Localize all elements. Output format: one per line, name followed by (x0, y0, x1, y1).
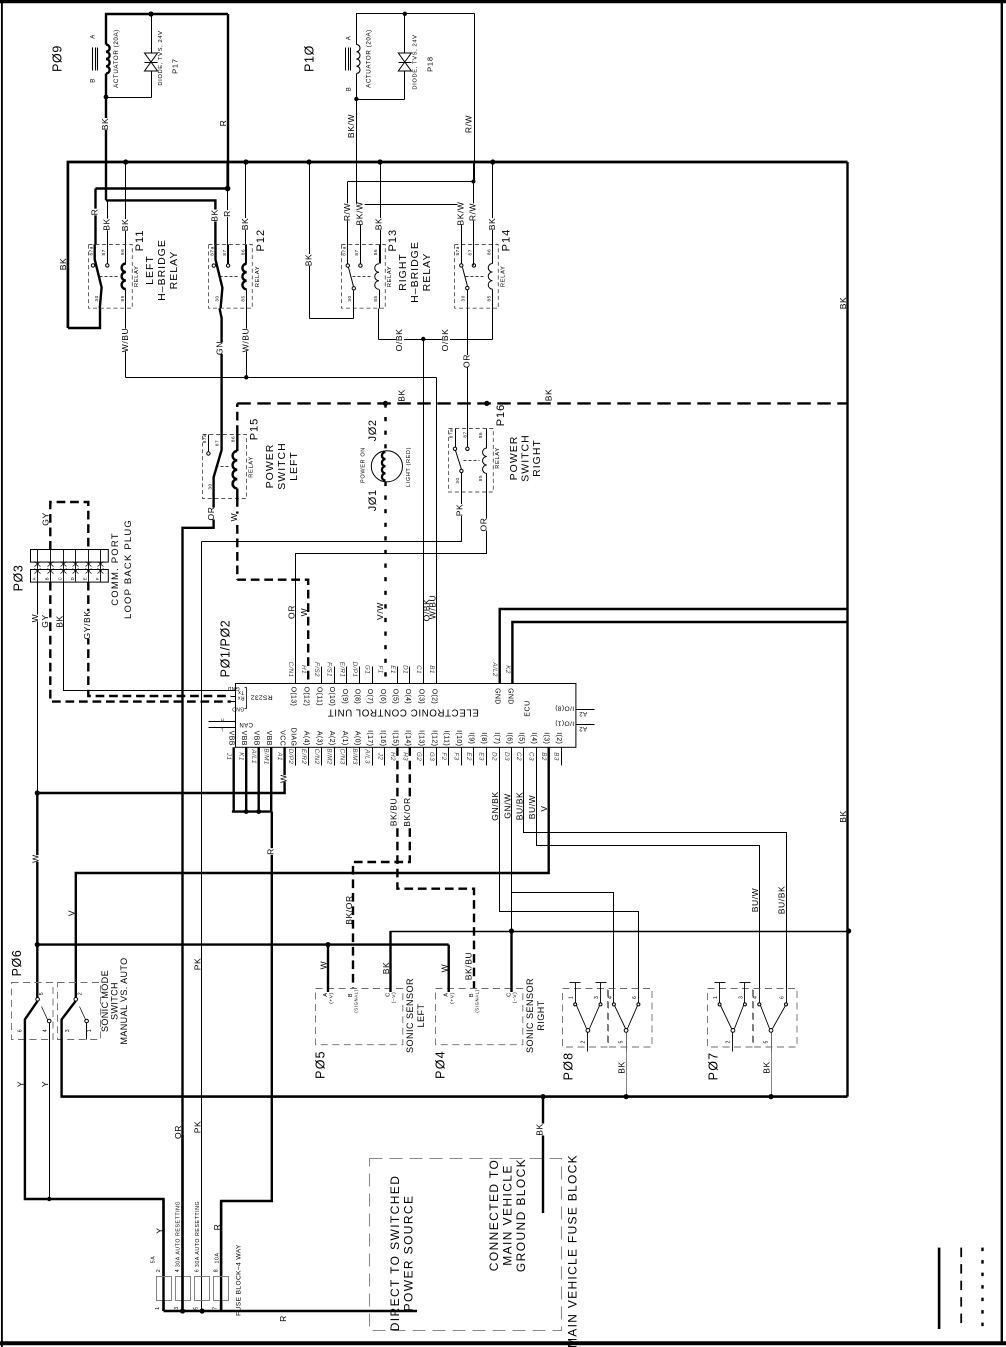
svg-text:GN: GN (215, 341, 225, 355)
wire Y from P06-6 (25, 1040, 164, 1312)
svg-text:GY: GY (40, 512, 50, 525)
wire P17 bottom link (107, 97, 152, 99)
svg-text:O(6): O(6) (379, 689, 386, 704)
ECU top pin O(4)/D1 (409, 667, 411, 684)
svg-text:B2: B2 (540, 752, 547, 761)
svg-text:A(0): A(0) (354, 731, 361, 746)
svg-text:OR: OR (461, 354, 471, 368)
wire BK P07-5 to bus (771, 1033, 773, 1097)
P15 87 blade thick from GN (214, 434, 222, 498)
svg-text:W/BU: W/BU (240, 328, 250, 353)
svg-text:V: V (539, 805, 549, 811)
P16 30 wire PK (202, 492, 462, 542)
connector PØ7 crossed pins (759, 989, 761, 1003)
svg-text:8: 8 (213, 1269, 219, 1273)
wire P11-30 to bus left corner (68, 308, 100, 328)
svg-text:Tx: Tx (238, 689, 244, 695)
svg-text:H: H (220, 717, 223, 722)
svg-text:A: A (32, 577, 37, 580)
svg-text:(SIGNAL): (SIGNAL) (354, 989, 359, 1012)
svg-text:2: 2 (77, 992, 83, 996)
wire BK from P03-C to ECU GND (64, 582, 231, 691)
svg-text:I(7): I(7) (493, 732, 500, 744)
svg-text:RS232: RS232 (250, 693, 272, 700)
svg-text:A/L2: A/L2 (491, 661, 498, 677)
svg-text:LOOP BACK PLUG: LOOP BACK PLUG (123, 519, 134, 619)
svg-text:DIODE, TVS, 24V: DIODE, TVS, 24V (158, 30, 164, 85)
wire BK/OR dashed ECU I(14) to P05-B (353, 747, 410, 989)
svg-text:86: 86 (373, 249, 378, 255)
ECU bottom pin A(4)/E/R2 (308, 748, 310, 766)
svg-text:OR: OR (206, 507, 216, 521)
wire from P06-3 to BK bus (62, 1040, 848, 1097)
svg-text:(+V): (+V) (329, 992, 335, 1004)
wire dashed lamp to ECU O(6) (384, 482, 387, 684)
svg-text:C: C (385, 992, 391, 997)
svg-text:7: 7 (212, 1306, 218, 1310)
svg-text:6: 6 (194, 1269, 200, 1273)
svg-text:Rx: Rx (237, 695, 244, 701)
ECU CAN stubs (209, 721, 236, 723)
wire BU/BK ECU I(5) to P07-6 (524, 748, 787, 989)
svg-text:F3: F3 (453, 752, 460, 760)
svg-text:BK: BK (838, 810, 848, 823)
svg-text:GY/BK: GY/BK (82, 611, 92, 640)
svg-text:2: 2 (580, 1040, 586, 1044)
svg-text:P11: P11 (134, 230, 146, 252)
wire P12-86 BK from bus (245, 163, 247, 266)
fuse bottom R bus (164, 1310, 418, 1312)
wire W from P03-A (37, 582, 39, 794)
svg-text:R: R (222, 210, 232, 217)
svg-text:POWER: POWER (508, 436, 520, 481)
wire BK/BU dashed ECU I(15) to P04-B (397, 747, 474, 989)
wire R branch to P11-87a (96, 187, 228, 189)
svg-text:GND: GND (227, 685, 239, 691)
svg-text:VBB: VBB (265, 731, 272, 746)
svg-text:A: A (90, 34, 96, 39)
connector PØ7 box A (708, 989, 753, 1048)
svg-text:BK: BK (374, 218, 384, 231)
wire GN/BK ECU I(7) to P08-6 (500, 748, 639, 989)
svg-text:L: L (220, 727, 223, 732)
svg-text:A: A (346, 36, 352, 41)
svg-text:F/S1: F/S1 (326, 662, 333, 677)
actuator P10 core lines (345, 48, 347, 71)
svg-text:I/O(1): I/O(1) (555, 719, 574, 726)
svg-text:Y: Y (15, 1081, 25, 1087)
wire W to P04-A (448, 945, 450, 992)
actuator P09 coil (106, 45, 110, 74)
ECU top pin O(8)/D/P1 (359, 667, 361, 684)
wire OR thin P16-85 to ECU O(13) (296, 492, 487, 684)
ECU top pin O(7)/G1 (372, 667, 374, 684)
relay P11 87 contact (107, 245, 109, 264)
svg-text:G1: G1 (364, 665, 371, 674)
svg-text:87a: 87a (209, 246, 214, 255)
svg-text:R: R (278, 1315, 288, 1322)
svg-text:GROUND BLOCK: GROUND BLOCK (514, 1158, 528, 1272)
svg-text:3: 3 (65, 1029, 71, 1033)
svg-text:BK/OR: BK/OR (402, 797, 412, 826)
label BK (102, 118, 110, 130)
wire R from VBB to fuse (221, 812, 272, 1311)
svg-text:C2: C2 (515, 752, 522, 761)
svg-text:RELAY: RELAY (495, 447, 501, 469)
power source dashed box (370, 1159, 562, 1331)
svg-text:BK: BK (761, 1061, 771, 1074)
svg-text:6: 6 (779, 996, 785, 1000)
svg-text:I(11): I(11) (443, 730, 450, 746)
svg-text:R/W: R/W (342, 203, 352, 221)
connector PØ8 crossed pins (613, 989, 615, 1003)
wire P11-86 BK from bus (125, 163, 127, 264)
svg-text:W: W (30, 854, 40, 863)
connector PØ7 crossed pins (715, 982, 726, 984)
actuator P10 top wire (357, 14, 475, 45)
svg-text:P14: P14 (501, 229, 513, 252)
bus junction dots (123, 159, 128, 164)
svg-text:RELAY: RELAY (134, 266, 140, 288)
wire GN/W branch to P08-4 (512, 893, 614, 989)
svg-text:SONIC SENSOR: SONIC SENSOR (525, 978, 535, 1053)
fuse block fuses (157, 1277, 172, 1301)
svg-text:H–BRIDGE: H–BRIDGE (156, 239, 168, 301)
wire P13-86 BK (380, 163, 382, 264)
relay P11 coil (125, 245, 127, 264)
svg-text:BK: BK (240, 218, 250, 231)
svg-text:O(8): O(8) (354, 689, 361, 704)
ECU bottom pin A(0)/B/M3 (359, 748, 361, 766)
junction dot P18 top (403, 12, 407, 16)
W bus to sensors (37, 943, 448, 945)
wire W dashed P15-85 to ECU O(12) (236, 498, 238, 580)
wire R to P12-87 (225, 186, 231, 192)
svg-text:PØ1/PØ2: PØ1/PØ2 (218, 620, 232, 678)
wire BK P13-30 to bus (309, 163, 311, 319)
svg-text:P15: P15 (248, 418, 260, 441)
P16 blade (456, 451, 462, 470)
svg-text:FUSE BLOCK–4 WAY: FUSE BLOCK–4 WAY (235, 1244, 242, 1316)
svg-text:PØ7: PØ7 (706, 1052, 720, 1081)
svg-text:87: 87 (101, 249, 106, 255)
svg-text:D3: D3 (503, 752, 510, 761)
svg-text:R: R (218, 120, 228, 127)
svg-text:E/R2: E/R2 (300, 749, 307, 765)
svg-text:30A AUTO RESETTING: 30A AUTO RESETTING (176, 1201, 182, 1267)
wire P11-87 BK stub (107, 201, 109, 245)
svg-text:RELAY: RELAY (421, 253, 433, 292)
svg-text:BK: BK (101, 218, 111, 231)
svg-text:SONIC SENSOR: SONIC SENSOR (405, 978, 415, 1053)
svg-text:CONNECTED TO: CONNECTED TO (487, 1159, 501, 1271)
svg-text:BU/BK: BU/BK (515, 792, 525, 821)
svg-text:I(17): I(17) (366, 730, 373, 746)
wire BK net P09-B to P12-87a (106, 200, 215, 244)
svg-text:B: B (346, 87, 352, 92)
svg-text:RELAY: RELAY (255, 266, 261, 288)
svg-text:5: 5 (763, 1040, 769, 1044)
svg-text:C/N2: C/N2 (313, 749, 320, 765)
svg-text:H1: H1 (300, 665, 307, 674)
svg-text:BK: BK (210, 209, 220, 222)
W net verticals (35, 790, 40, 795)
svg-text:V/W: V/W (375, 602, 385, 620)
svg-text:OR: OR (479, 518, 489, 532)
svg-text:85: 85 (120, 295, 125, 301)
svg-text:LEFT: LEFT (144, 255, 156, 285)
svg-text:A2: A2 (579, 710, 587, 716)
relay P13 coil (379, 245, 381, 264)
power switch P16 box (449, 429, 494, 493)
svg-text:3: 3 (594, 996, 600, 1000)
svg-text:A1: A1 (276, 751, 283, 761)
svg-text:87: 87 (354, 249, 359, 255)
svg-text:RIGHT: RIGHT (531, 439, 543, 477)
svg-text:5: 5 (39, 992, 45, 996)
svg-text:SWITCH: SWITCH (519, 434, 531, 481)
svg-text:87a: 87a (455, 246, 460, 255)
svg-text:2: 2 (725, 1040, 731, 1044)
actuator P09 core lines (92, 48, 94, 71)
svg-text:85: 85 (373, 295, 378, 301)
svg-text:SONIC MODE: SONIC MODE (100, 970, 110, 1032)
svg-text:W/BU: W/BU (427, 595, 437, 620)
svg-text:POWER ON: POWER ON (360, 447, 366, 483)
power switch P15 box (203, 435, 247, 499)
svg-text:LEFT: LEFT (416, 1003, 426, 1027)
P16 87a contact (455, 429, 457, 448)
svg-text:RELAY: RELAY (168, 251, 180, 290)
svg-text:ACTUATOR (20A): ACTUATOR (20A) (113, 29, 120, 88)
wire GY/BK from P03-E to ECU (88, 582, 231, 696)
svg-text:B/M2: B/M2 (326, 748, 333, 764)
wire PK down to fuse block (201, 542, 203, 1312)
wire P09-A R down (227, 14, 229, 189)
ECU bottom pin A(3)/C/N2 (321, 748, 323, 766)
wire dashed to lamp J02 (384, 403, 387, 450)
relay P11 87a contact (95, 244, 102, 308)
wire BK dashed from P15-86 to bus (236, 403, 238, 434)
svg-text:I(14): I(14) (404, 730, 411, 746)
P16 coil (486, 429, 488, 449)
wire GN from P12-30 (220, 308, 222, 434)
svg-text:B: B (90, 78, 96, 83)
BK gnd line A/L2 (500, 609, 848, 683)
wire GN/W ECU I(6) to BK net (511, 748, 513, 932)
svg-text:5A: 5A (151, 1256, 157, 1264)
svg-text:POWER: POWER (264, 444, 276, 489)
ECU bottom pin DIAG./D/P2 (295, 748, 297, 766)
svg-text:4: 4 (43, 1029, 49, 1033)
svg-text:E: E (83, 577, 88, 580)
actuator P09 top wire (106, 14, 228, 45)
svg-text:VBB: VBB (228, 731, 235, 746)
svg-text:VBB: VBB (253, 731, 260, 746)
svg-text:E3: E3 (478, 752, 485, 761)
svg-text:O(9): O(9) (341, 689, 348, 704)
svg-text:O(11): O(11) (315, 687, 322, 706)
svg-text:4: 4 (753, 996, 759, 1000)
svg-text:BK: BK (100, 118, 110, 131)
svg-text:B/M3: B/M3 (351, 748, 358, 764)
svg-text:(−V): (−V) (391, 992, 397, 1004)
svg-text:JØ2: JØ2 (367, 419, 379, 441)
svg-text:1: 1 (713, 996, 719, 1000)
svg-text:A2: A2 (579, 725, 587, 731)
svg-text:3: 3 (174, 1306, 180, 1310)
wire BK P05-C (389, 931, 391, 992)
svg-text:I(4): I(4) (530, 732, 537, 744)
ECU top pin O(11)/F/S2 (321, 667, 323, 684)
P03 connector bars (31, 550, 109, 563)
bottom BK bus (61, 1095, 847, 1097)
wire P14-86 BK (492, 163, 494, 264)
svg-text:OR: OR (286, 605, 296, 619)
svg-text:C3: C3 (528, 752, 535, 761)
svg-text:J1: J1 (225, 752, 232, 761)
R supply bus (68, 162, 848, 328)
svg-text:E1: E1 (389, 665, 396, 674)
svg-text:PK: PK (192, 958, 202, 971)
svg-text:I(13): I(13) (417, 730, 424, 746)
svg-text:B3: B3 (553, 752, 560, 761)
svg-text:P1Ø: P1Ø (302, 45, 316, 72)
svg-text:RELAY: RELAY (387, 266, 393, 288)
svg-text:H–BRIDGE: H–BRIDGE (409, 241, 421, 303)
P16 87 contact from OR (466, 447, 469, 450)
wire BK P08-5 to bus (626, 1033, 628, 1097)
svg-text:PØ9: PØ9 (50, 45, 64, 72)
wire V from ECU I(3) to P06-2 (76, 747, 549, 999)
svg-text:(+V): (+V) (449, 992, 455, 1004)
svg-text:D: D (70, 577, 75, 581)
diode P17 TVS (151, 15, 153, 98)
svg-text:B: B (45, 577, 50, 580)
svg-text:85: 85 (486, 295, 491, 301)
relay P14 box (455, 245, 499, 309)
svg-text:30: 30 (347, 295, 352, 301)
svg-text:I(5): I(5) (518, 732, 525, 744)
svg-text:GND: GND (232, 706, 244, 712)
svg-text:1: 1 (155, 1306, 161, 1310)
legend solid line (938, 1248, 941, 1329)
wire BK P04-C (510, 931, 512, 992)
wire W/BU relay coils to ECU O(2) (125, 309, 127, 378)
svg-text:86: 86 (478, 432, 483, 438)
svg-text:A: A (323, 992, 329, 996)
wire OR through fuse 2 (181, 1135, 183, 1311)
wire P09-B down BK (105, 74, 107, 98)
svg-text:87a: 87a (89, 246, 94, 255)
svg-text:GN/BK: GN/BK (490, 791, 500, 820)
ECU bottom pin I(12)/G3 (436, 748, 438, 766)
svg-text:DIRECT TO SWITCHED: DIRECT TO SWITCHED (388, 1175, 402, 1332)
svg-text:PØ8: PØ8 (562, 1052, 576, 1081)
svg-text:BK: BK (120, 219, 130, 232)
relay P11 box (89, 245, 133, 309)
svg-text:O(4): O(4) (404, 689, 411, 704)
P06 left switch (36, 998, 40, 1002)
svg-text:P18: P18 (425, 56, 434, 72)
svg-text:BK: BK (838, 297, 848, 310)
svg-text:I(15): I(15) (391, 730, 398, 746)
svg-text:E2: E2 (465, 752, 472, 761)
svg-text:SWITCH: SWITCH (109, 982, 119, 1020)
wire BK to ground block (542, 1097, 544, 1213)
wire BK/W from P10-B (356, 100, 358, 197)
ECU bottom pin I(17)/A/L3 (372, 748, 374, 766)
wire P10-B down BK/W (356, 74, 358, 100)
svg-text:I(2): I(2) (555, 732, 562, 744)
svg-text:C: C (58, 577, 63, 581)
svg-text:I(12): I(12) (430, 730, 437, 746)
svg-text:E/R1: E/R1 (338, 662, 345, 678)
svg-text:3: 3 (738, 996, 744, 1000)
svg-text:PK: PK (192, 1121, 202, 1134)
svg-text:H3: H3 (401, 752, 408, 761)
svg-text:O(10): O(10) (328, 687, 335, 707)
svg-text:D2: D2 (491, 752, 498, 761)
ECU bottom pin A(2)/B/M2 (334, 748, 336, 766)
svg-text:ACTUATOR (20A): ACTUATOR (20A) (366, 29, 373, 88)
page border frame (0, 0, 1006, 3)
svg-text:30: 30 (455, 477, 460, 483)
wire R into fuse 4 (220, 1201, 222, 1276)
svg-text:O(12): O(12) (302, 687, 309, 707)
connector PØ8 box B (609, 989, 653, 1048)
svg-text:BK: BK (58, 258, 68, 271)
svg-text:BK: BK (55, 615, 65, 628)
sonic sensor PØ5 box (316, 989, 403, 1045)
wire R/W from P10-A (474, 14, 476, 182)
sonic sensor PØ4 box (436, 989, 523, 1045)
svg-text:A/L1: A/L1 (250, 748, 257, 764)
svg-text:6: 6 (18, 1029, 24, 1033)
svg-text:K1: K1 (238, 752, 245, 761)
svg-text:GND: GND (506, 688, 513, 705)
wire GY from P03-B to ECU (50, 582, 231, 702)
ECU top pin O(9)/E/R1 (346, 667, 348, 684)
ECU bottom pin A(1)/C/N3 (346, 748, 348, 766)
BK net line sensors (391, 931, 849, 933)
svg-text:BU/W: BU/W (527, 795, 537, 820)
svg-text:BK: BK (617, 1061, 627, 1074)
svg-text:87: 87 (463, 431, 468, 437)
svg-text:D1: D1 (401, 665, 408, 674)
svg-text:PK: PK (454, 504, 464, 517)
ECU right I/O stubs (576, 709, 595, 711)
svg-text:O(5): O(5) (391, 689, 398, 704)
svg-text:RELAY: RELAY (249, 456, 255, 478)
svg-text:C/N1: C/N1 (287, 662, 294, 678)
svg-text:6: 6 (632, 996, 638, 1000)
relay P14 coil (492, 245, 494, 264)
wire BU/W ECU I(4) to P07-4 (537, 748, 760, 989)
relay P14 87a contact (461, 245, 463, 264)
svg-text:I(3): I(3) (543, 732, 550, 744)
ECU bottom pin I(10)/F3 (461, 748, 463, 766)
svg-text:4: 4 (607, 996, 613, 1000)
wire OR P14-30 to P16-87 (467, 309, 469, 448)
P15 actuation dash (216, 466, 230, 468)
svg-text:LEFT: LEFT (288, 451, 300, 481)
svg-text:87a: 87a (202, 434, 207, 443)
svg-text:A: A (444, 992, 450, 996)
wire W to P05-A (325, 942, 330, 947)
wire Y into fuse 1 (162, 1199, 164, 1276)
svg-text:DIAG.: DIAG. (290, 728, 297, 749)
